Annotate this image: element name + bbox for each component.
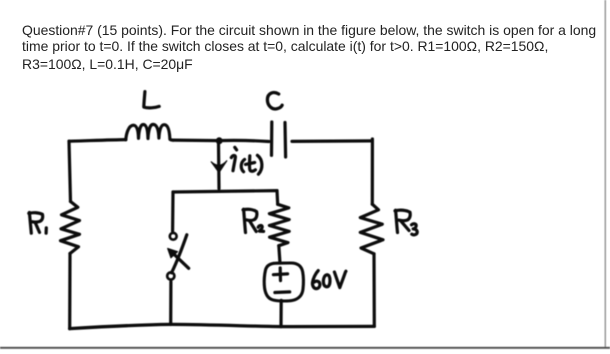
switch top terminal circle (170, 233, 177, 240)
voltage source minus sign (275, 290, 290, 294)
wire R3 to bottom-right corner (372, 254, 375, 326)
wire right side down (371, 139, 374, 204)
wire switch to bottom (169, 282, 172, 325)
wire R1 to bottom-left corner (68, 254, 72, 329)
wire left side top (69, 141, 71, 201)
current arrow i(t) head (211, 161, 227, 173)
wire top-left horizontal (69, 140, 126, 142)
frame bottom line (0, 347, 610, 349)
switch blade (172, 235, 187, 273)
node junction dot (216, 137, 223, 144)
voltage source V1 circle (264, 263, 303, 301)
inductor L (126, 124, 173, 140)
label i(t) (231, 147, 262, 174)
voltage source plus sign (273, 268, 287, 281)
frame right line (604, 0, 606, 347)
switch bottom terminal circle (167, 272, 174, 279)
wire inductor to junction (173, 139, 218, 143)
wire capacitor to top-right corner (292, 139, 372, 143)
label R2 (243, 209, 264, 232)
switch closing arrow (168, 248, 189, 268)
label R1 (29, 213, 47, 234)
wire middle down to R2 (275, 191, 279, 205)
wire junction to capacitor (218, 140, 269, 141)
wire R2 to source (279, 246, 280, 263)
resistor R2 (269, 204, 289, 245)
label 60V (312, 271, 345, 289)
resistor R1 (61, 202, 80, 254)
current arrow i(t) shaft (217, 143, 221, 189)
middle wire (switch branch to R2 branch) (173, 191, 277, 192)
label L (144, 92, 159, 108)
label C (267, 93, 282, 109)
bottom wire (70, 324, 375, 328)
wire source to bottom (279, 300, 282, 326)
label R3 (395, 210, 417, 235)
wire middle down to switch (171, 192, 175, 231)
resistor R3 (360, 204, 383, 254)
capacitor C plates (272, 122, 286, 157)
